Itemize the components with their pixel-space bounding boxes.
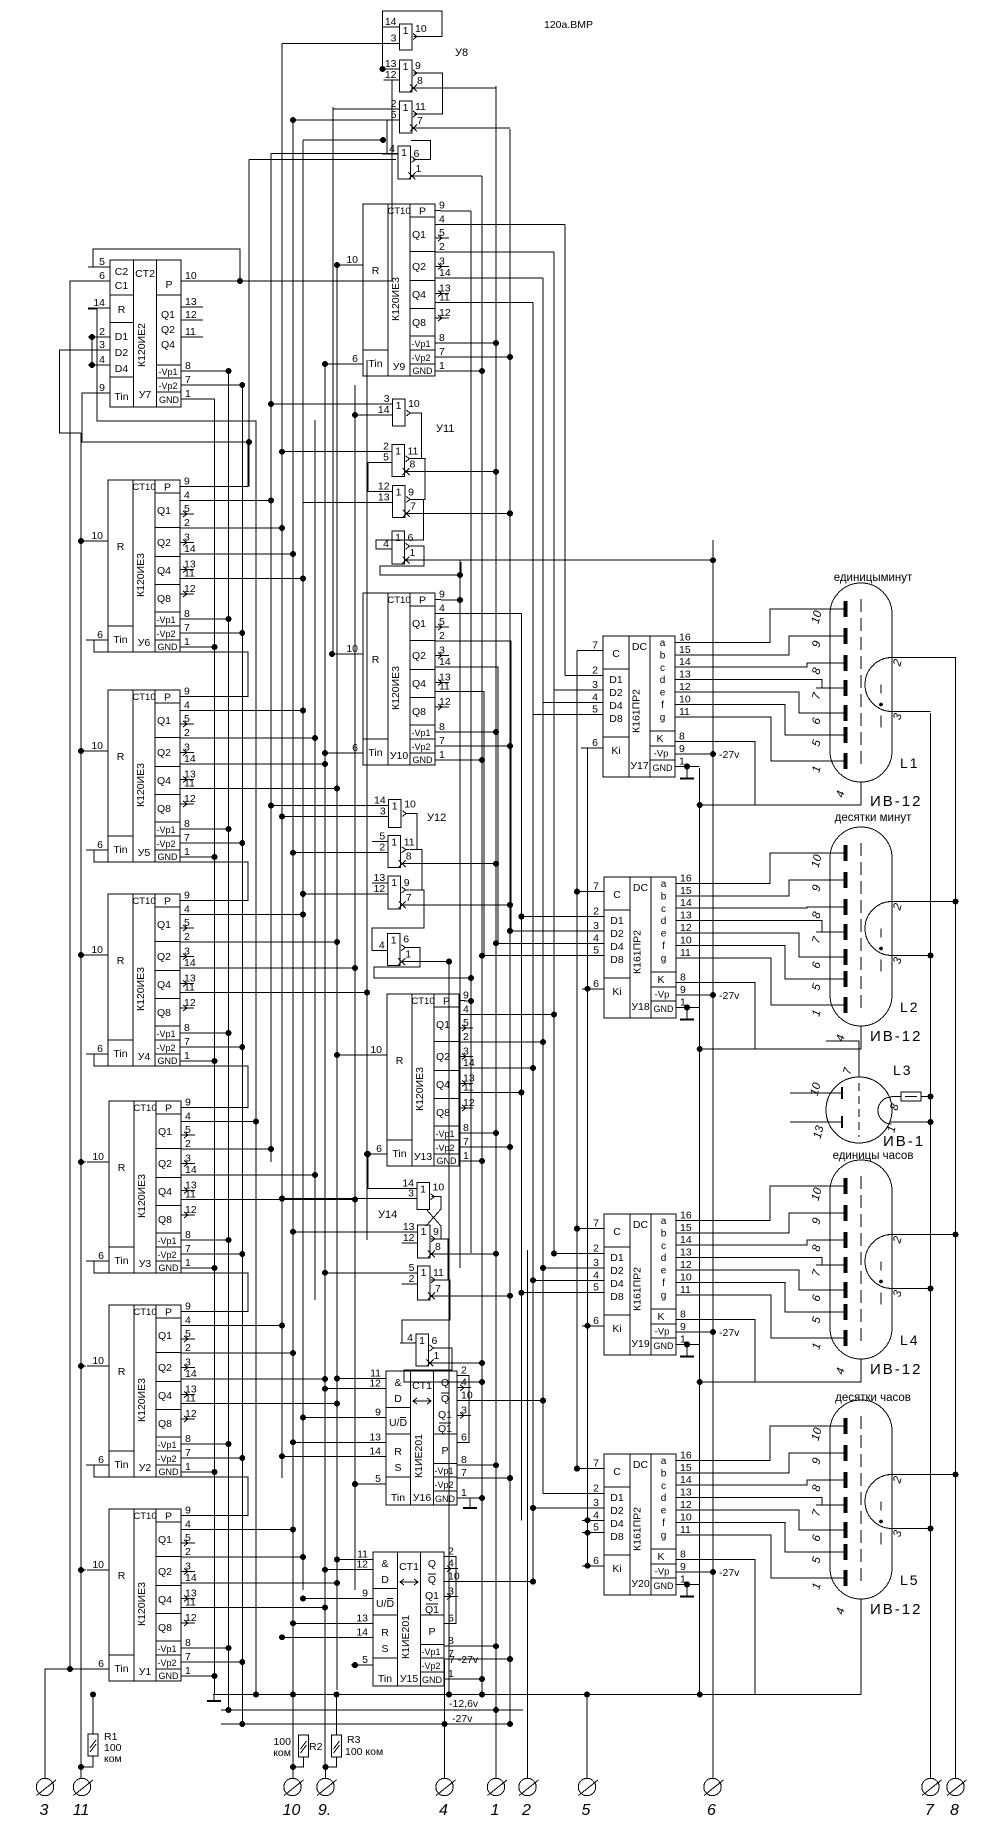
svg-text:2: 2 [184, 517, 190, 529]
label R2 [273, 1736, 322, 1759]
wire Vp2 [186, 1457, 242, 1459]
wire У11 b3-13 [303, 501, 377, 503]
svg-text:2: 2 [593, 1243, 599, 1255]
wire R2 bot [293, 1757, 304, 1767]
wire K [676, 1320, 755, 1382]
node gb [697, 1692, 703, 1698]
wire L3 pin10 [790, 1092, 828, 1094]
svg-text:12: 12 [184, 997, 196, 1009]
svg-text:P: P [165, 1307, 172, 1319]
wire seg [676, 1258, 843, 1265]
svg-text:Tin: Tin [378, 1673, 392, 1685]
svg-text:2: 2 [593, 1483, 599, 1495]
terminal 4 [436, 1778, 456, 1819]
node g [212, 1673, 218, 1679]
node d [518, 914, 524, 920]
wire У8 tap3 [282, 43, 400, 45]
svg-text:6: 6 [461, 1431, 467, 1443]
svg-text:1: 1 [185, 1665, 191, 1677]
node gd [684, 1004, 690, 1010]
wire У8b4-У6P [248, 160, 250, 487]
svg-text:-Vp2: -Vp2 [156, 629, 175, 639]
wire У9-R [337, 264, 341, 266]
tube L2 (ИВ-12) десятки минут [810, 812, 923, 1045]
node f [507, 510, 513, 516]
wire bus [576, 651, 578, 1469]
wire R bus [80, 433, 82, 1778]
svg-text:b: b [661, 891, 667, 902]
ground [680, 1007, 694, 1019]
svg-text:7: 7 [435, 1283, 441, 1295]
svg-text:b: b [661, 1228, 667, 1239]
wire D in [510, 930, 604, 932]
node v1 [226, 1237, 232, 1243]
svg-text:R2: R2 [309, 1741, 323, 1753]
wire seg [675, 636, 843, 655]
wire t9 [336, 1696, 338, 1735]
svg-text:Q2: Q2 [436, 1051, 450, 1063]
node r1b [78, 1764, 84, 1770]
svg-text:-Vp1: -Vp1 [157, 1440, 176, 1450]
svg-text:К120ИЕ3: К120ИЕ3 [414, 1067, 426, 1111]
svg-text:R: R [372, 265, 380, 277]
decoder У17 (К161ПР2) [581, 631, 691, 777]
svg-text:Tin: Tin [114, 391, 128, 403]
node e [507, 1721, 513, 1727]
svg-text:12: 12 [680, 1259, 692, 1271]
svg-text:11: 11 [433, 1267, 444, 1279]
svg-text:16: 16 [679, 631, 691, 643]
wire mgnd [464, 1160, 482, 1162]
svg-text:-Vp1: -Vp1 [158, 367, 177, 377]
node gr [697, 802, 703, 808]
node f [279, 814, 285, 820]
svg-text:Q4: Q4 [412, 678, 426, 690]
node f [493, 469, 499, 475]
svg-text:10: 10 [415, 23, 427, 35]
svg-text:Q8: Q8 [436, 1107, 450, 1119]
svg-text:b: b [660, 650, 666, 661]
wire Q tap [186, 992, 367, 994]
svg-text:11: 11 [439, 292, 450, 304]
wire Vp1 [186, 618, 229, 620]
svg-text:13: 13 [680, 1487, 692, 1499]
svg-text:Q: Q [428, 1574, 436, 1586]
wire У7 GND [187, 398, 215, 400]
wire GND [186, 1060, 215, 1062]
svg-text:8: 8 [461, 1454, 467, 1466]
node d [507, 928, 513, 934]
svg-text:GND: GND [159, 1467, 180, 1477]
svg-text:4: 4 [185, 1519, 191, 1531]
svg-text:CT10: CT10 [133, 1103, 156, 1114]
svg-text:-Vp2: -Vp2 [158, 381, 177, 391]
node r [78, 1363, 84, 1369]
svg-text:Tin: Tin [113, 844, 127, 856]
svg-text:8: 8 [463, 1122, 469, 1134]
wire L3 pin1 [890, 1121, 931, 1123]
node g [212, 854, 218, 860]
wire Vp1 [186, 1239, 229, 1241]
node vp [710, 751, 716, 757]
svg-text:1: 1 [403, 61, 409, 73]
wire У9-4 [441, 224, 565, 226]
node v1 [226, 616, 232, 622]
wire -Vp1 bus [228, 371, 230, 1710]
svg-text:К161ПР2: К161ПР2 [632, 930, 644, 974]
svg-text:14: 14 [439, 267, 451, 279]
svg-text:-27v: -27v [719, 1567, 740, 1579]
tube L4 (ИВ-12) единицы часов [810, 1150, 923, 1378]
wire Q tap [186, 941, 337, 943]
svg-text:1: 1 [185, 1461, 191, 1473]
svg-text:f: f [662, 1278, 665, 1289]
terminal 1 [487, 1778, 507, 1819]
node f [268, 803, 274, 809]
wire heater 8 [955, 657, 957, 1778]
node r [78, 1567, 84, 1573]
wire seg [676, 880, 843, 896]
svg-text:6: 6 [593, 1555, 599, 1567]
node f [479, 1360, 485, 1366]
tube L1 (ИВ-12) единицыминут [810, 572, 923, 810]
label R1 [104, 1731, 122, 1765]
wire У10-R [332, 653, 341, 655]
wire У7 D2 preset [60, 350, 89, 433]
svg-text:Q2: Q2 [157, 747, 171, 759]
wire pin3 [892, 1528, 931, 1530]
node v [479, 1495, 485, 1501]
node f [380, 137, 386, 143]
node f [507, 1293, 513, 1299]
svg-text:11: 11 [184, 982, 195, 994]
svg-text:D2: D2 [609, 687, 623, 699]
node f [468, 975, 474, 981]
svg-text:К120ИЕ2: К120ИЕ2 [136, 323, 148, 367]
svg-text:1: 1 [396, 400, 402, 412]
svg-text:e: e [661, 1266, 667, 1277]
svg-text:Tin: Tin [392, 1148, 406, 1160]
svg-text:10: 10 [92, 1355, 104, 1367]
svg-text:-Vp1: -Vp1 [421, 1647, 440, 1657]
wire bus [332, 107, 334, 654]
svg-text:CT10: CT10 [132, 692, 155, 703]
node vp [710, 1569, 716, 1575]
svg-text:3: 3 [439, 256, 445, 268]
wire in [303, 1598, 351, 1600]
svg-text:1: 1 [395, 532, 401, 544]
svg-text:единицыминут: единицыминут [834, 572, 913, 584]
svg-text:Q4: Q4 [412, 289, 426, 301]
svg-text:3: 3 [184, 946, 190, 958]
svg-text:15: 15 [680, 885, 692, 897]
svg-text:-Vp2: -Vp2 [421, 1661, 440, 1671]
svg-text:4: 4 [184, 490, 190, 502]
wire t10c [292, 1767, 294, 1778]
wire bus [481, 176, 483, 1695]
svg-text:CT2: CT2 [135, 268, 155, 280]
wire У11 b3 out7 [406, 512, 510, 514]
svg-text:2: 2 [379, 842, 385, 854]
node d [518, 1290, 524, 1296]
svg-text:8: 8 [439, 332, 445, 344]
svg-text:-Vp1: -Vp1 [411, 339, 430, 349]
svg-text:5: 5 [184, 503, 190, 515]
wire У12 b2-2 [293, 852, 372, 854]
ground [680, 1344, 694, 1356]
wire bus [324, 364, 326, 1767]
svg-text:R: R [117, 751, 125, 763]
svg-text:R: R [118, 1570, 126, 1582]
wire У10-P [441, 599, 460, 601]
label R3 [345, 1734, 383, 1758]
wire Q tap [186, 710, 303, 712]
svg-text:11: 11 [184, 568, 195, 580]
svg-text:10: 10 [185, 270, 197, 282]
svg-text:13: 13 [680, 1247, 692, 1259]
svg-text:3: 3 [592, 679, 598, 691]
svg-text:У4: У4 [138, 1051, 151, 1063]
svg-text:8: 8 [679, 731, 685, 743]
svg-text:К120ИЕ3: К120ИЕ3 [135, 763, 147, 807]
svg-text:Q8: Q8 [158, 1214, 172, 1226]
svg-text:6: 6 [707, 1802, 716, 1819]
svg-text:7: 7 [593, 1218, 599, 1230]
node d [530, 1505, 536, 1511]
svg-text:-Vp2: -Vp2 [157, 1454, 176, 1464]
svg-text:У18: У18 [631, 1001, 650, 1013]
svg-text:3: 3 [184, 742, 190, 754]
svg-text:3: 3 [593, 1257, 599, 1269]
svg-text:D4: D4 [610, 1278, 624, 1290]
svg-text:К120ИЕ3: К120ИЕ3 [135, 553, 147, 597]
node v [479, 1676, 485, 1682]
svg-text:У19: У19 [631, 1338, 650, 1350]
node o [530, 1579, 536, 1585]
wire -Vp [676, 1331, 713, 1333]
svg-text:8: 8 [185, 1229, 191, 1241]
svg-text:d: d [661, 916, 667, 927]
svg-text:3: 3 [185, 1357, 191, 1369]
svg-text:6: 6 [97, 839, 103, 851]
svg-text:12: 12 [439, 696, 451, 708]
wire У12 b1-b2 link [410, 814, 417, 850]
wire seg [676, 1295, 843, 1338]
wire bus [509, 129, 511, 1724]
svg-text:-Vp: -Vp [655, 1327, 670, 1338]
wire У11 b1-14 [355, 414, 377, 416]
svg-text:D1: D1 [610, 915, 624, 927]
terminal 2 [519, 1778, 539, 1819]
svg-text:7: 7 [925, 1802, 935, 1819]
wire t9c [325, 1767, 327, 1778]
svg-text:2: 2 [184, 931, 190, 943]
svg-text:12: 12 [184, 583, 196, 595]
node gr [697, 1046, 703, 1052]
svg-text:7: 7 [461, 1467, 467, 1479]
svg-text:2: 2 [593, 906, 599, 918]
svg-text:У16: У16 [413, 1492, 432, 1504]
svg-text:b: b [661, 1468, 667, 1479]
svg-text:7 -27v: 7 -27v [449, 1654, 479, 1666]
svg-text:9: 9 [99, 382, 105, 394]
svg-text:3: 3 [439, 645, 445, 657]
wire R3 bot [326, 1757, 337, 1767]
node v [507, 1144, 513, 1150]
svg-text:У15: У15 [400, 1673, 419, 1685]
svg-text:Q2: Q2 [161, 324, 175, 336]
wire in [293, 1441, 364, 1443]
terminal 9. [317, 1778, 337, 1819]
svg-text:P: P [165, 1511, 172, 1523]
wire in [325, 1388, 364, 1390]
wire seg [676, 1498, 843, 1505]
node v [493, 1130, 499, 1136]
wire seg [675, 704, 843, 735]
svg-text:8: 8 [680, 1309, 686, 1321]
svg-text:11: 11 [408, 446, 419, 458]
svg-text:D8: D8 [610, 1531, 624, 1543]
wire seg [675, 717, 843, 761]
svg-text:2: 2 [439, 241, 445, 253]
svg-text:3: 3 [185, 1561, 191, 1573]
svg-text:12: 12 [184, 793, 196, 805]
wire D in [533, 714, 603, 716]
node c [574, 889, 580, 895]
wire -27v rail [221, 1723, 509, 1725]
svg-text:GND: GND [654, 1581, 675, 1591]
svg-text:7: 7 [439, 346, 445, 358]
svg-text:13: 13 [185, 296, 197, 308]
wire t5 [586, 1695, 588, 1779]
wire gnd [450, 1678, 482, 1680]
svg-text:Q8: Q8 [158, 1622, 172, 1634]
node d1 [89, 334, 95, 340]
wire У12 b2 out8 [402, 863, 496, 865]
wire vp1 [450, 1645, 496, 1647]
label -27v [719, 749, 740, 761]
node f [290, 850, 296, 856]
svg-text:Q1: Q1 [158, 1330, 172, 1342]
wire У7 P [187, 80, 400, 281]
wire R pin [81, 750, 86, 752]
terminal 3 [36, 1778, 56, 1819]
node v2 [239, 630, 245, 636]
svg-text:D1: D1 [115, 331, 129, 343]
node q [253, 1119, 259, 1125]
label -27v [719, 1327, 740, 1339]
svg-text:ИВ-1: ИВ-1 [883, 1133, 925, 1150]
svg-text:14: 14 [93, 297, 105, 309]
node f [290, 117, 296, 123]
wire grid [700, 1026, 861, 1049]
node q [364, 990, 370, 996]
decoder У20 (К161ПР2) [582, 1449, 692, 1595]
wire У8 b3-4link [387, 120, 398, 154]
svg-text:GND: GND [413, 755, 434, 765]
svg-text:1: 1 [185, 1257, 191, 1269]
svg-text:a: a [661, 1216, 667, 1227]
wire mvp1 [464, 1132, 496, 1134]
svg-text:12: 12 [463, 1097, 475, 1109]
svg-text:2: 2 [521, 1802, 531, 1819]
svg-text:c: c [660, 663, 665, 674]
svg-text:10: 10 [404, 799, 416, 811]
wire Q tap [186, 1325, 282, 1327]
svg-text:8: 8 [410, 459, 416, 471]
node g [212, 1469, 218, 1475]
svg-text:14: 14 [439, 656, 451, 668]
tube L5 (ИВ-12) десятки часов [810, 1392, 923, 1618]
node i [322, 1386, 328, 1392]
svg-text:Ki: Ki [611, 745, 620, 757]
terminal 8 [947, 1778, 967, 1819]
wire У8 b1 loop [383, 11, 443, 69]
node t10b [290, 1764, 296, 1770]
counter У7 (К120ИЕ2) [88, 256, 203, 407]
inverter У12-3 [372, 872, 413, 909]
wire D in [482, 955, 604, 957]
svg-text:К120ИЕ3: К120ИЕ3 [136, 1378, 148, 1422]
wire D in [543, 1493, 604, 1495]
svg-text:4: 4 [439, 603, 445, 615]
svg-text:Q1: Q1 [438, 1423, 452, 1435]
svg-text:L3: L3 [893, 1062, 913, 1078]
svg-text:К1ИЕ201: К1ИЕ201 [400, 1615, 412, 1659]
svg-text:5: 5 [439, 616, 445, 628]
wire seg [676, 1522, 843, 1552]
node i [300, 1415, 306, 1421]
wire У10-2 [441, 641, 582, 931]
node q [322, 761, 328, 767]
wire У13-R [337, 1054, 365, 1056]
node d [585, 1530, 591, 1536]
svg-text:1: 1 [439, 360, 445, 372]
counter У5 (К120ИЕ3) [86, 686, 196, 863]
svg-text:Q: Q [441, 1393, 449, 1405]
wire grid L5 [860, 1599, 862, 1695]
svg-text:14: 14 [369, 1445, 381, 1457]
wire GND [676, 1343, 700, 1345]
counter У3 (К120ИЕ3) [87, 1097, 197, 1274]
svg-text:5: 5 [184, 713, 190, 725]
svg-text:5: 5 [439, 227, 445, 239]
wire pin3 [892, 711, 931, 713]
svg-text:10: 10 [680, 1511, 692, 1523]
decoder У18 (К161ПР2) [582, 872, 692, 1018]
node i [279, 1453, 285, 1459]
svg-text:У6: У6 [138, 637, 151, 649]
svg-text:GND: GND [435, 1494, 456, 1504]
node q [312, 1172, 318, 1178]
wire У14 b2-b3 link [431, 1239, 448, 1280]
svg-text:1: 1 [184, 846, 190, 858]
wire У11 b2-b3 link [414, 459, 426, 500]
svg-text:K: K [657, 1311, 664, 1323]
svg-text:12: 12 [369, 1378, 381, 1390]
svg-text:-Vp1: -Vp1 [156, 825, 175, 835]
svg-text:D8: D8 [609, 713, 623, 725]
node gd [684, 1581, 690, 1587]
svg-text:CT10: CT10 [133, 1511, 156, 1522]
wire vp2 [450, 1658, 510, 1660]
svg-text:Q2: Q2 [412, 261, 426, 273]
svg-text:8: 8 [184, 1022, 190, 1034]
svg-text:GND: GND [158, 852, 179, 862]
svg-text:9: 9 [415, 60, 421, 72]
svg-text:f: f [662, 1518, 665, 1529]
svg-text:11: 11 [680, 1284, 691, 1296]
